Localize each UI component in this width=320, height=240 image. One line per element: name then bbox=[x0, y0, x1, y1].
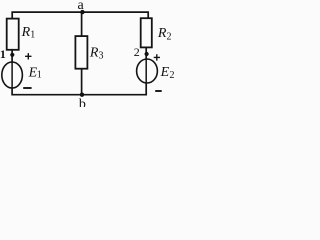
svg-text:2: 2 bbox=[167, 32, 172, 43]
wire R3 branch bottom (R3 to node b) bbox=[81, 69, 83, 95]
svg-text:E: E bbox=[160, 65, 170, 80]
terminal 2 dot on E2 bbox=[145, 52, 149, 56]
wire R1 bottom to E1 top bbox=[11, 50, 13, 63]
voltage source E1 (circle with diameter line) bbox=[2, 62, 23, 88]
svg-text:2: 2 bbox=[134, 45, 140, 59]
voltage source E2 (circle with diameter line) bbox=[137, 59, 158, 83]
plus sign of E1 bbox=[25, 53, 31, 59]
svg-text:1: 1 bbox=[37, 69, 42, 80]
svg-text:3: 3 bbox=[99, 51, 104, 62]
wire top bus from R1 to R2 with corner drops bbox=[12, 12, 148, 19]
wire R2 bottom to E2 top bbox=[145, 47, 147, 59]
plus sign of E2 bbox=[154, 54, 160, 60]
svg-text:R: R bbox=[157, 26, 167, 41]
svg-text:2: 2 bbox=[170, 70, 175, 81]
minus sign of E1 bbox=[23, 87, 31, 89]
wire bottom bus from E1 to E2 with corner rises bbox=[12, 83, 146, 95]
resistor R3 bbox=[75, 36, 87, 69]
node a junction dot bbox=[80, 10, 84, 14]
node b junction dot bbox=[80, 93, 84, 97]
minus sign of E2 bbox=[155, 90, 162, 92]
resistor R2 bbox=[141, 18, 152, 47]
svg-text:1: 1 bbox=[0, 47, 6, 61]
wire R3 branch top (node a to R3) bbox=[81, 12, 83, 36]
svg-text:1: 1 bbox=[30, 30, 35, 41]
terminal 1 dot on E1 bbox=[10, 53, 14, 57]
resistor R1 bbox=[7, 19, 19, 50]
svg-text:a: a bbox=[78, 0, 85, 13]
svg-text:R: R bbox=[21, 25, 31, 40]
svg-text:b: b bbox=[79, 97, 86, 107]
svg-text:R: R bbox=[89, 45, 99, 60]
